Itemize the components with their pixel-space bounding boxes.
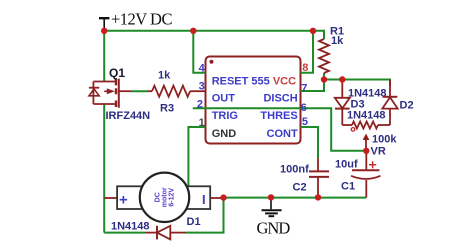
node ground [268, 194, 274, 200]
capacitor C2 100nf [309, 127, 329, 198]
wire pin8 VCC drop from rail [301, 31, 314, 73]
resistor R3 zigzag [152, 86, 190, 97]
wire junction to D3 top and D2 corner [324, 80, 390, 87]
wire bottom ground rail [224, 197, 367, 199]
wire R1 bottom to junction [323, 73, 325, 80]
svg-text:D1: D1 [187, 216, 201, 228]
svg-text:3: 3 [199, 81, 205, 93]
wire +12V top rail [104, 30, 313, 32]
svg-text:RESET 555 VCC: RESET 555 VCC [212, 76, 296, 88]
svg-text:100nf: 100nf [280, 164, 309, 176]
wire Q1 source down left side [103, 104, 105, 233]
svg-text:TRIG: TRIG [212, 110, 238, 122]
svg-text:1N4148: 1N4148 [111, 221, 150, 233]
node power junction [101, 28, 107, 34]
svg-text:THRES: THRES [260, 110, 297, 122]
svg-text:motor: motor [162, 187, 169, 207]
svg-text:D2: D2 [400, 100, 414, 112]
wire pin7 DISCH to R1 bottom junction [301, 80, 325, 92]
svg-text:2: 2 [197, 99, 203, 111]
wire D1 left to right returns [104, 232, 145, 234]
svg-text:+: + [119, 192, 128, 209]
wire TRIG-THRES through line [193, 108, 366, 151]
ground symbol [262, 197, 282, 216]
svg-text:GND: GND [212, 128, 237, 140]
svg-text:CONT: CONT [267, 128, 298, 140]
diode D3 1N4148 [335, 80, 350, 126]
power flag +12V [99, 18, 109, 31]
svg-text:I: I [202, 192, 206, 207]
node motor right [220, 194, 226, 200]
svg-text:C2: C2 [293, 182, 307, 194]
svg-text:1N4148: 1N4148 [347, 110, 386, 122]
svg-text:8: 8 [302, 62, 308, 74]
svg-text:6: 6 [301, 102, 307, 114]
svg-text:DC: DC [155, 192, 162, 202]
svg-text:OUT: OUT [212, 93, 236, 105]
node R1 bottom [321, 76, 327, 82]
svg-text:Q1: Q1 [109, 66, 125, 80]
svg-text:1: 1 [199, 117, 205, 129]
junction node dots [101, 28, 369, 201]
wire pin1 GND down [188, 127, 205, 198]
wire rail to R1 top [313, 31, 324, 39]
svg-text:+12V DC: +12V DC [111, 10, 172, 29]
svg-text:DISCH: DISCH [263, 93, 297, 105]
svg-text:VR: VR [371, 146, 386, 158]
svg-text:5: 5 [302, 116, 308, 128]
svg-text:1k: 1k [331, 35, 344, 47]
transistor Q1 IRFZ44N mosfet [89, 79, 119, 108]
node pin4 branch [190, 28, 196, 34]
IC pin names [212, 76, 298, 141]
op-amp U1 555 timer body [206, 57, 301, 144]
wire C1 top from VR junction [365, 151, 367, 170]
resistor R1 zigzag [319, 39, 329, 73]
svg-text:1k: 1k [158, 70, 171, 82]
node D3 top [339, 76, 345, 82]
svg-text:10uf: 10uf [335, 159, 358, 171]
svg-text:7: 7 [301, 83, 307, 95]
node C2 bottom [315, 194, 321, 200]
svg-text:100k: 100k [372, 134, 397, 146]
potentiometer VR 100k [342, 122, 390, 151]
node VR wiper [363, 148, 369, 154]
node pin8 R1 branch [310, 28, 316, 34]
wire R3 to pin3 OUT [190, 90, 206, 92]
svg-text:4: 4 [199, 63, 206, 75]
svg-text:GND: GND [257, 219, 291, 238]
wire pin5 CONT to C2 [301, 127, 319, 158]
wire pin4 RESET drop from rail [193, 31, 205, 73]
wire Q1 drain from rail [103, 31, 105, 81]
wire Q1 gate to R3 [119, 90, 131, 92]
svg-text:IRFZ44N: IRFZ44N [106, 110, 151, 122]
svg-text:R3: R3 [160, 103, 174, 115]
capacitor C1 10uf electrolytic [351, 161, 381, 179]
wire D1 right to motor right vertical [186, 198, 224, 233]
svg-text:6-12V: 6-12V [169, 188, 176, 207]
diode D1 1N4148 flyback [145, 226, 186, 240]
motor M1 [104, 173, 223, 222]
svg-text:C1: C1 [341, 181, 355, 193]
wire C1 bottom to rail [365, 180, 367, 198]
diode D2 1N4148 [382, 80, 397, 126]
IC pin numbers [197, 62, 309, 129]
